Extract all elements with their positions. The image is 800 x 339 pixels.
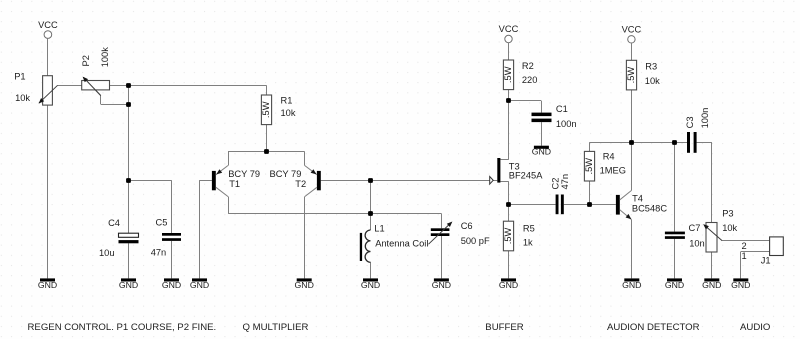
svg-text:AUDIO: AUDIO xyxy=(740,322,770,333)
ground at x=304.2 xyxy=(297,278,312,281)
svg-text:C6: C6 xyxy=(461,221,473,231)
wire T2 base to T3 gate xyxy=(321,180,498,182)
wire R2 bottom to T3 drain xyxy=(500,90,508,160)
svg-text:P2: P2 xyxy=(81,55,91,66)
svg-text:C7: C7 xyxy=(689,223,701,233)
potentiometer P3 xyxy=(706,223,717,253)
svg-text:47n: 47n xyxy=(151,247,167,257)
svg-text:GND: GND xyxy=(38,280,57,290)
wire C7 column xyxy=(674,142,676,278)
svg-text:GND: GND xyxy=(702,280,721,290)
ground at x=441.4 xyxy=(434,278,449,281)
resistor R2 220 xyxy=(503,60,513,90)
wire R5 bottom to ground xyxy=(508,251,510,279)
wire node A down to L1 xyxy=(370,180,372,230)
svg-text:R1: R1 xyxy=(281,96,293,106)
capacitor C3 100n xyxy=(687,132,690,153)
svg-text:10k: 10k xyxy=(281,108,296,118)
svg-text:.5W: .5W xyxy=(626,67,636,84)
svg-text:VCC: VCC xyxy=(622,24,642,34)
capacitor C5 47n xyxy=(162,233,181,236)
svg-text:GND: GND xyxy=(622,280,641,290)
svg-text:GND: GND xyxy=(361,280,380,290)
wire T3 source to R5 top xyxy=(500,181,508,221)
wire node column x128 xyxy=(128,85,130,233)
wire T2 collector to ground xyxy=(304,197,306,279)
svg-text:VCC: VCC xyxy=(499,24,519,34)
svg-text:GND: GND xyxy=(731,280,750,290)
wire VCC2 to R2 xyxy=(508,43,510,60)
transistor Q3 (T3 BF245A, N-JFET) xyxy=(497,158,500,183)
wire P1 wiper to P2 left terminal xyxy=(58,85,82,87)
transistor Q1 (T1 BCY 79, PNP) xyxy=(212,171,216,190)
supply VCC net 1 xyxy=(44,31,52,39)
junction node (631.5,142.5) xyxy=(629,140,634,145)
svg-text:GND: GND xyxy=(162,280,181,290)
svg-text:10k: 10k xyxy=(645,76,660,86)
svg-text:C5: C5 xyxy=(156,218,168,228)
ground at x=508.5 xyxy=(501,278,516,281)
resistor R4 1MEG xyxy=(584,151,594,181)
svg-text:L1: L1 xyxy=(374,223,384,233)
svg-text:GND: GND xyxy=(499,280,518,290)
capacitor C2 47n xyxy=(556,195,559,215)
wire C3 to P3 top xyxy=(697,142,712,222)
svg-text:C1: C1 xyxy=(556,104,568,114)
wire C1 bottom to ground xyxy=(541,122,543,146)
svg-text:T1: T1 xyxy=(229,179,240,189)
svg-text:AUDION DETECTOR: AUDION DETECTOR xyxy=(607,322,700,333)
svg-text:GND: GND xyxy=(119,280,138,290)
supply VCC net 2 xyxy=(505,35,512,42)
svg-text:1MEG: 1MEG xyxy=(600,165,626,175)
svg-text:GND: GND xyxy=(432,280,451,290)
wire P3 bottom to ground xyxy=(711,252,713,278)
transistor Q4 (T4 BC548C, NPN) xyxy=(616,195,620,215)
ground at x=171.5 xyxy=(164,278,179,281)
svg-text:GND: GND xyxy=(190,280,209,290)
svg-text:10u: 10u xyxy=(99,248,115,258)
svg-text:.5W: .5W xyxy=(584,158,594,175)
wire emitter rail T1-T2 xyxy=(228,151,305,153)
ground at x=370.5 xyxy=(363,278,378,281)
wire C5 bottom to ground xyxy=(171,241,173,278)
svg-text:47n: 47n xyxy=(560,174,570,190)
svg-text:REGEN CONTROL. P1 COURSE, P2 F: REGEN CONTROL. P1 COURSE, P2 FINE. xyxy=(28,322,217,333)
wire C2 to T4 base xyxy=(564,204,616,206)
junction node (266.5,151.5) xyxy=(264,149,269,154)
svg-text:.5W: .5W xyxy=(503,66,513,83)
wire C6 bottom to ground xyxy=(441,236,443,278)
junction node (128.5,104.5) xyxy=(126,102,131,107)
svg-text:.5W: .5W xyxy=(503,228,513,245)
resistor R5 1k xyxy=(503,221,513,251)
ground at x=47.5 xyxy=(40,278,55,281)
wire C4 bottom to ground xyxy=(128,243,130,278)
svg-text:R3: R3 xyxy=(645,62,657,72)
svg-text:BUFFER: BUFFER xyxy=(485,322,523,333)
wire collector rail to tank xyxy=(228,213,441,215)
svg-text:220: 220 xyxy=(522,75,538,85)
wire R1 bottom to emitter rail xyxy=(266,125,268,152)
wire VCC3 to R3 xyxy=(631,43,633,60)
junction node (508.5,100.5) xyxy=(506,98,511,103)
ground at x=128.5 xyxy=(121,278,136,281)
svg-text:BCY 79: BCY 79 xyxy=(228,169,260,179)
junction node (370.5,180.5) xyxy=(368,178,373,183)
svg-text:BCY 79: BCY 79 xyxy=(270,169,302,179)
potentiometer P2 xyxy=(82,81,110,90)
svg-text:Q MULTIPLIER: Q MULTIPLIER xyxy=(243,322,309,333)
ground at x=199.5 xyxy=(192,278,207,281)
wire J1 pin 1 to ground xyxy=(741,252,770,279)
svg-text:VCC: VCC xyxy=(38,20,58,30)
svg-text:GND: GND xyxy=(532,146,551,156)
junction node (508.5,204.5) xyxy=(506,202,511,207)
capacitor C1 100n xyxy=(532,113,552,117)
svg-text:P3: P3 xyxy=(722,208,733,218)
svg-text:1k: 1k xyxy=(523,237,533,247)
svg-text:1: 1 xyxy=(742,251,747,261)
wire T4 emitter to ground xyxy=(631,220,633,279)
wire branch to C5 xyxy=(128,180,171,233)
svg-text:R4: R4 xyxy=(603,152,615,162)
svg-text:T4: T4 xyxy=(632,193,643,203)
svg-text:C4: C4 xyxy=(108,218,120,228)
svg-text:P1: P1 xyxy=(14,71,25,81)
wire collector node to C3 xyxy=(631,142,687,144)
svg-text:GND: GND xyxy=(295,280,314,290)
transistor Q2 (T2 BCY 79, PNP) xyxy=(317,171,321,190)
wire L1 bottom to ground xyxy=(370,262,372,278)
capacitor C6 500pF (variable) xyxy=(431,228,450,231)
ground at x=674.5 xyxy=(667,278,682,281)
wire P3 wiper to J1 pin 2 xyxy=(722,240,769,242)
resistor R3 10k xyxy=(626,60,636,90)
junction node (370.5,213.5) xyxy=(368,211,373,216)
wire VCC1 to P1 top xyxy=(47,38,49,75)
svg-text:BC548C: BC548C xyxy=(632,204,667,214)
resistor R1 10k xyxy=(261,95,271,125)
svg-text:T2: T2 xyxy=(295,179,306,189)
svg-text:10k: 10k xyxy=(15,93,30,103)
svg-text:C3: C3 xyxy=(685,117,695,129)
svg-text:500 pF: 500 pF xyxy=(461,236,490,246)
svg-text:Antenna Coil: Antenna Coil xyxy=(375,238,428,248)
ground at x=740.8 xyxy=(733,278,748,281)
wire node to R4 and R3 column xyxy=(590,142,632,204)
svg-text:10n: 10n xyxy=(689,238,705,248)
wire P2 wiper tap xyxy=(84,78,129,105)
wire T1 base to ground xyxy=(199,180,212,278)
ground for C1 xyxy=(534,146,549,149)
capacitor C4 10u (polarized) xyxy=(119,233,139,237)
junction node (128.5,85.5) xyxy=(126,83,131,88)
capacitor C7 10n xyxy=(665,232,685,235)
ground at x=711.8 xyxy=(704,278,719,281)
wire R3 bottom to T4 collector xyxy=(631,90,633,191)
wire source node to C2 xyxy=(509,204,556,206)
junction node (674.5,142.5) xyxy=(672,140,677,145)
svg-text:R5: R5 xyxy=(523,224,535,234)
wire tank corner to C6 xyxy=(441,213,443,228)
junction node (128.5,180.5) xyxy=(126,178,131,183)
svg-text:BF245A: BF245A xyxy=(509,170,543,180)
svg-text:R2: R2 xyxy=(522,61,534,71)
potentiometer P1 xyxy=(43,76,53,105)
junction node (589.5,204.5) xyxy=(587,202,592,207)
wire P1 bottom to ground xyxy=(47,105,49,278)
svg-text:2: 2 xyxy=(742,241,747,251)
ground at x=631.8 xyxy=(624,278,639,281)
svg-text:100n: 100n xyxy=(556,119,577,129)
svg-text:GND: GND xyxy=(665,280,684,290)
inductor L1 Antenna Coil xyxy=(365,230,370,262)
wire branch to C1 xyxy=(509,101,542,113)
svg-text:.5W: .5W xyxy=(261,101,271,118)
svg-text:100k: 100k xyxy=(100,47,110,68)
supply VCC net 3 xyxy=(628,36,635,43)
wire P2 right terminal to R1 top xyxy=(110,85,267,95)
svg-text:100n: 100n xyxy=(700,108,710,129)
svg-text:J1: J1 xyxy=(761,256,771,266)
svg-text:10k: 10k xyxy=(722,223,737,233)
connector J1 xyxy=(770,237,784,256)
